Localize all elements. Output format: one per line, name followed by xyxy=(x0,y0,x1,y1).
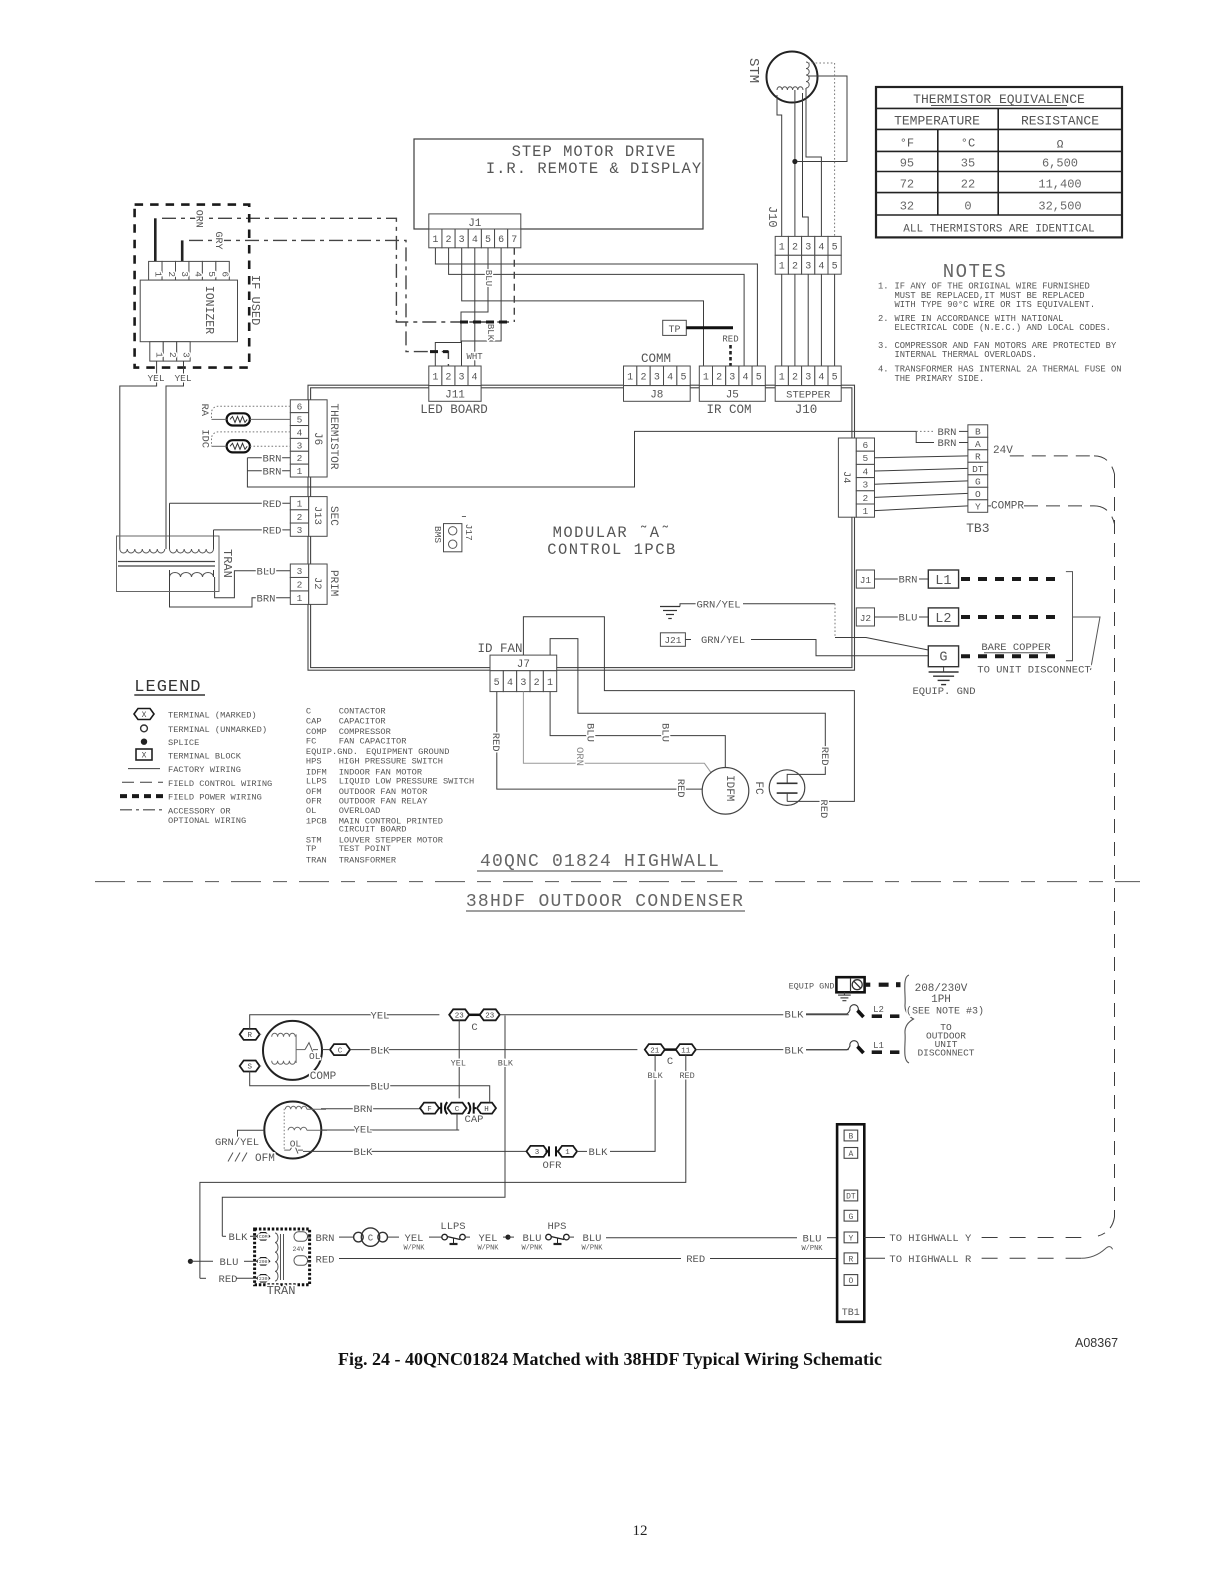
wire BLU W/PNK splice to HPS xyxy=(508,1233,546,1253)
svg-text:6: 6 xyxy=(863,440,869,451)
svg-text:4: 4 xyxy=(863,466,869,477)
svg-text:YEL: YEL xyxy=(479,1233,498,1245)
svg-text:ACCESSORY OR: ACCESSORY OR xyxy=(168,806,231,816)
svg-text:BRN: BRN xyxy=(263,466,282,478)
legend field power wiring xyxy=(120,793,262,803)
svg-text:TRAN: TRAN xyxy=(267,1284,296,1298)
svg-text:A08367: A08367 xyxy=(1075,1336,1118,1350)
liquid low pressure switch LLPS xyxy=(440,1221,465,1244)
svg-text:6: 6 xyxy=(220,271,231,277)
svg-text:L1: L1 xyxy=(873,1041,884,1051)
svg-text:HPS: HPS xyxy=(306,757,322,767)
svg-text:X: X xyxy=(142,711,147,720)
svg-text:6,500: 6,500 xyxy=(1042,157,1078,171)
svg-text:1: 1 xyxy=(863,506,869,517)
svg-text:BLU: BLU xyxy=(371,1082,390,1094)
svg-text:FAN CAPACITOR: FAN CAPACITOR xyxy=(339,737,407,747)
svg-text:IF USED: IF USED xyxy=(248,275,262,325)
ground symbol GRN/YEL on 1PCB xyxy=(660,600,928,651)
svg-text:LIQUID LOW PRESSURE SWITCH: LIQUID LOW PRESSURE SWITCH xyxy=(339,776,475,786)
svg-text:38HDF OUTDOOR CONDENSER: 38HDF OUTDOOR CONDENSER xyxy=(466,892,744,912)
svg-text:LED BOARD: LED BOARD xyxy=(420,403,488,417)
svg-text:EQUIP GND: EQUIP GND xyxy=(789,982,835,992)
wire BRN to TB3 A xyxy=(916,431,968,450)
high pressure switch HPS xyxy=(546,1221,570,1244)
svg-text:ALL THERMISTORS ARE IDENTICAL: ALL THERMISTORS ARE IDENTICAL xyxy=(903,224,1094,236)
svg-text:R: R xyxy=(975,451,981,462)
svg-text:C: C xyxy=(338,1047,343,1055)
svg-text:5: 5 xyxy=(756,372,762,383)
svg-text:72: 72 xyxy=(900,178,914,192)
svg-text:OPTIONAL WIRING: OPTIONAL WIRING xyxy=(168,816,246,826)
contactor C contacts 21-11 xyxy=(645,1044,696,1068)
svg-text:230: 230 xyxy=(259,1276,268,1282)
svg-text:RED: RED xyxy=(674,779,686,798)
connector J1 on step motor drive xyxy=(429,214,521,248)
thermistor RA sensor xyxy=(198,404,290,426)
svg-text:IR COM: IR COM xyxy=(706,403,751,417)
svg-text:4: 4 xyxy=(472,372,478,383)
svg-text:C: C xyxy=(667,1056,673,1068)
svg-text:RED: RED xyxy=(818,747,830,766)
svg-text:CAPACITOR: CAPACITOR xyxy=(339,717,386,727)
svg-text:BLK: BLK xyxy=(354,1147,374,1159)
svg-text:Y: Y xyxy=(975,501,981,512)
svg-text:J8: J8 xyxy=(650,390,663,402)
svg-text:BRN: BRN xyxy=(938,438,957,450)
wire YEL W/PNK coil to LLPS xyxy=(388,1233,443,1253)
connector J5 IR COM xyxy=(699,366,765,417)
transformer TRAN indoor xyxy=(117,503,235,591)
svg-text:F: F xyxy=(427,1106,432,1114)
svg-text:Ω: Ω xyxy=(1057,140,1064,152)
connector J4 xyxy=(838,438,874,517)
wire RED J13 pin1 to transformer xyxy=(170,499,291,511)
svg-text:RED: RED xyxy=(263,499,282,511)
legend factory wiring xyxy=(128,765,241,775)
svg-text:1: 1 xyxy=(432,372,438,383)
connector J10 STEPPER header xyxy=(775,366,841,417)
svg-text:5: 5 xyxy=(832,261,838,272)
wire YEL W/PNK LLPS to splice xyxy=(465,1233,510,1253)
svg-text:EQUIP.GND.: EQUIP.GND. xyxy=(306,747,358,757)
svg-text:1: 1 xyxy=(779,242,785,253)
ground GRN/YEL for OFM xyxy=(215,1130,264,1161)
svg-text:OL: OL xyxy=(306,806,316,816)
svg-text:2: 2 xyxy=(863,493,869,504)
disconnect switch blade L2 row xyxy=(785,1005,900,1022)
svg-text:OFR: OFR xyxy=(543,1160,563,1172)
wire BRN TRAN 24V to contactor coil xyxy=(307,1233,354,1245)
legend field control wiring xyxy=(122,779,272,789)
svg-text:TERMINAL BLOCK: TERMINAL BLOCK xyxy=(168,751,242,761)
svg-text:ID FAN: ID FAN xyxy=(477,642,522,656)
svg-text:5: 5 xyxy=(485,235,491,246)
svg-text:BLK: BLK xyxy=(785,1046,805,1058)
accessory dotted wire STM to J10 plug pin5 xyxy=(808,63,835,236)
terminal R on compressor xyxy=(240,1029,260,1040)
svg-text:TEMPERATURE: TEMPERATURE xyxy=(894,114,980,129)
svg-text:BRN: BRN xyxy=(938,427,957,439)
terminal block TB3 xyxy=(966,425,989,536)
equipment ground entry EQUIP GND xyxy=(789,977,901,1001)
svg-text:FC: FC xyxy=(752,781,764,795)
svg-text:3: 3 xyxy=(297,440,303,451)
svg-text:2: 2 xyxy=(716,372,722,383)
svg-text:1: 1 xyxy=(779,261,785,272)
svg-text:RED: RED xyxy=(722,335,738,345)
svg-text:BLK: BLK xyxy=(785,1010,805,1022)
legend abbreviations xyxy=(306,707,474,866)
svg-text:21: 21 xyxy=(650,1047,660,1055)
accessory wire GRY ionizer pin3 to J11 pin2 xyxy=(182,232,448,367)
svg-text:SEC: SEC xyxy=(327,506,339,526)
svg-text:YEL: YEL xyxy=(371,1011,390,1023)
svg-text:11,400: 11,400 xyxy=(1038,178,1081,192)
field power bare copper from G xyxy=(961,642,1058,656)
bracket to unit disconnect xyxy=(977,572,1100,677)
svg-text:A: A xyxy=(975,439,981,450)
svg-text:J2: J2 xyxy=(311,577,323,590)
field power wiring from L1 xyxy=(961,577,1058,581)
contactor C contacts 23-23 xyxy=(449,1009,500,1034)
svg-text:THERMISTOR: THERMISTOR xyxy=(327,404,339,470)
wire BRN J6 pin2 xyxy=(247,454,290,466)
svg-text:TO HIGHWALL Y: TO HIGHWALL Y xyxy=(889,1233,972,1245)
svg-text:TRAN: TRAN xyxy=(220,549,234,578)
wire J1 pin1 to J5 pin5 xyxy=(435,248,757,366)
transformer TRAN outdoor xyxy=(255,1229,310,1298)
svg-text:J1: J1 xyxy=(468,218,482,230)
svg-text:BLK: BLK xyxy=(485,324,495,341)
svg-text:2: 2 xyxy=(297,580,303,591)
section title 38HDF OUTDOOR CONDENSER xyxy=(466,892,745,912)
wire RED J13 pin3 to transformer xyxy=(214,526,291,538)
svg-text:EQUIPMENT GROUND: EQUIPMENT GROUND xyxy=(366,747,449,757)
splice junction on STM wire xyxy=(792,159,797,164)
svg-text:TRAN: TRAN xyxy=(306,855,327,865)
svg-text:J21: J21 xyxy=(664,635,681,646)
outdoor fan relay OFR contacts 3-1 xyxy=(527,1055,664,1172)
svg-text:BLU: BLU xyxy=(584,723,596,742)
svg-text:4.: 4. xyxy=(878,365,889,375)
svg-text:CIRCUIT BOARD: CIRCUIT BOARD xyxy=(339,824,407,834)
svg-text:BLU: BLU xyxy=(257,566,276,578)
svg-text:S: S xyxy=(247,1064,252,1072)
svg-text:35: 35 xyxy=(961,157,975,171)
svg-text:RED: RED xyxy=(263,526,282,538)
wire RED 11 to transformer feed xyxy=(200,1055,695,1278)
wire ORN J7 pin3 to IDFM xyxy=(523,692,711,774)
svg-text:L1: L1 xyxy=(935,574,951,589)
wire BLK branch to transformer feed xyxy=(222,1016,514,1237)
svg-text:12: 12 xyxy=(633,1523,648,1539)
svg-text:FACTORY WIRING: FACTORY WIRING xyxy=(168,765,241,775)
svg-text:W/PNK: W/PNK xyxy=(801,1245,823,1253)
outdoor fan motor OFM xyxy=(255,1102,327,1166)
wire STM to J10 plug pin3 xyxy=(803,93,809,236)
svg-text:THERMISTOR EQUIVALENCE: THERMISTOR EQUIVALENCE xyxy=(913,92,1085,107)
svg-text:ORN: ORN xyxy=(193,210,204,228)
svg-text:INTERNAL THERMAL OVERLOADS.: INTERNAL THERMAL OVERLOADS. xyxy=(895,350,1038,360)
svg-text:J10: J10 xyxy=(795,403,818,417)
svg-text:TRANSFORMER: TRANSFORMER xyxy=(339,855,396,865)
ionizer module xyxy=(140,261,262,361)
svg-text:DT: DT xyxy=(972,464,984,475)
svg-text:2: 2 xyxy=(534,678,540,689)
svg-text:4: 4 xyxy=(472,235,478,246)
svg-text:STEP MOTOR DRIVE: STEP MOTOR DRIVE xyxy=(512,143,677,161)
svg-text:4: 4 xyxy=(193,271,204,277)
wire BLU W/PNK HPS to TB1 Y xyxy=(569,1233,837,1253)
svg-text:O: O xyxy=(975,489,981,500)
svg-text:3: 3 xyxy=(863,480,869,491)
svg-text:32: 32 xyxy=(900,200,914,214)
svg-text:OFR: OFR xyxy=(306,796,322,806)
svg-text:1: 1 xyxy=(297,466,303,477)
svg-text:L2: L2 xyxy=(873,1005,884,1015)
svg-text:COM: COM xyxy=(259,1234,268,1240)
svg-text:HIGH PRESSURE SWITCH: HIGH PRESSURE SWITCH xyxy=(339,757,443,767)
svg-text:5: 5 xyxy=(681,372,687,383)
connector J21 GRN/YEL to G xyxy=(660,633,928,656)
svg-text:GRY: GRY xyxy=(212,232,223,250)
svg-text:22: 22 xyxy=(961,178,975,192)
wire BLK J1 pin6 to J11 pin3 xyxy=(462,248,502,366)
field control dashed trunk right side xyxy=(1114,474,1116,1217)
svg-text:6: 6 xyxy=(297,402,303,413)
svg-text:RED: RED xyxy=(316,1254,335,1266)
disconnect switch blade L1 row xyxy=(785,1041,900,1058)
connector J11 LED BOARD xyxy=(420,366,488,417)
svg-text:1: 1 xyxy=(432,235,438,246)
svg-text:RA: RA xyxy=(198,404,210,417)
svg-text:WHT: WHT xyxy=(466,352,483,362)
svg-text:2: 2 xyxy=(792,242,798,253)
svg-text:4: 4 xyxy=(667,372,673,383)
svg-text:3: 3 xyxy=(805,372,811,383)
wire YEL compressor R to contactor 23 xyxy=(250,1011,440,1029)
svg-text:SPLICE: SPLICE xyxy=(168,738,199,748)
svg-text:2: 2 xyxy=(297,512,303,523)
wire WHT J1 pin4 to J11 pin4 xyxy=(466,248,483,366)
svg-text:TO UNIT DISCONNECT: TO UNIT DISCONNECT xyxy=(977,665,1090,677)
jumper J17 BMS xyxy=(432,517,474,552)
svg-text:NOTES: NOTES xyxy=(943,261,1008,283)
svg-text:TERMINAL (UNMARKED): TERMINAL (UNMARKED) xyxy=(168,725,267,735)
svg-text:4: 4 xyxy=(818,242,824,253)
svg-text:32,500: 32,500 xyxy=(1038,200,1081,214)
wire BLU into TRAN with splice xyxy=(188,1257,257,1269)
legend terminal marked symbol xyxy=(134,709,257,721)
svg-text:TEST POINT: TEST POINT xyxy=(339,844,391,854)
svg-text:OFM: OFM xyxy=(255,1153,275,1165)
svg-text:IDC: IDC xyxy=(199,429,211,448)
svg-text:BLK: BLK xyxy=(647,1071,663,1081)
svg-text:FIELD POWER WIRING: FIELD POWER WIRING xyxy=(168,793,262,803)
svg-text:G: G xyxy=(975,476,981,487)
wire RED J7 pin5 to IDFM xyxy=(489,692,702,798)
svg-text:1PH: 1PH xyxy=(931,994,951,1006)
wire STM right winding to J10 plug pin4 xyxy=(806,88,821,236)
legend terminal unmarked symbol xyxy=(141,725,267,735)
svg-text:3: 3 xyxy=(805,261,811,272)
svg-text:Y: Y xyxy=(848,1235,853,1244)
svg-text:TP: TP xyxy=(306,844,316,854)
svg-text:3: 3 xyxy=(729,372,735,383)
svg-text:CAP: CAP xyxy=(306,717,322,727)
wire BLK 11 to outdoor disconnect L1 row xyxy=(696,1045,849,1057)
svg-text:BRN: BRN xyxy=(899,575,918,587)
connector J2 line output xyxy=(856,608,928,626)
svg-text:G: G xyxy=(848,1213,853,1222)
svg-text:BLU: BLU xyxy=(583,1233,602,1245)
svg-text:PRIM: PRIM xyxy=(327,570,339,596)
svg-text:OL: OL xyxy=(290,1138,302,1149)
main control printed circuit board 1PCB outline xyxy=(308,385,855,670)
svg-text:J10: J10 xyxy=(765,206,779,228)
wire RED TRAN to TB1 R xyxy=(307,1254,837,1266)
svg-text:5: 5 xyxy=(832,372,838,383)
svg-text:J11: J11 xyxy=(445,390,465,402)
svg-text:R: R xyxy=(848,1256,853,1265)
label MODULAR A CONTROL 1PCB xyxy=(547,524,677,559)
svg-text:3: 3 xyxy=(180,352,191,358)
svg-text:3: 3 xyxy=(459,235,465,246)
svg-text:YEL: YEL xyxy=(147,373,164,384)
svg-text:ELECTRICAL CODE (N.E.C.) AND L: ELECTRICAL CODE (N.E.C.) AND LOCAL CODES… xyxy=(895,323,1111,333)
wire BLK contactor to outdoor disconnect L2 row xyxy=(500,1011,849,1023)
svg-text:GRN/YEL: GRN/YEL xyxy=(696,600,740,612)
svg-text:C: C xyxy=(455,1106,460,1114)
svg-text:DISCONNECT: DISCONNECT xyxy=(917,1048,974,1059)
svg-text:I.R. REMOTE & DISPLAY: I.R. REMOTE & DISPLAY xyxy=(486,160,702,178)
svg-text:C: C xyxy=(471,1022,477,1034)
svg-text:1: 1 xyxy=(779,372,785,383)
field wire 24V from TB3 R xyxy=(993,445,1115,474)
svg-text:5: 5 xyxy=(297,415,303,426)
connector J8 COMM xyxy=(624,352,691,402)
svg-text:1: 1 xyxy=(152,271,163,277)
svg-text:5: 5 xyxy=(832,242,838,253)
svg-text:W/PNK: W/PNK xyxy=(581,1245,603,1253)
svg-text:BRN: BRN xyxy=(354,1104,373,1116)
svg-text:RED: RED xyxy=(686,1254,705,1266)
svg-text:W/PNK: W/PNK xyxy=(403,1245,425,1253)
svg-text:3: 3 xyxy=(458,372,464,383)
wire J1 pin3 to J5 pin1 xyxy=(462,248,704,366)
svg-text:COMP: COMP xyxy=(310,1071,337,1083)
wire STM to J10 plug pin1 xyxy=(777,95,782,236)
wire RED into TRAN xyxy=(200,1274,257,1286)
svg-text:WITH TYPE 90°C WIRE OR ITS EQU: WITH TYPE 90°C WIRE OR ITS EQUIVALENT. xyxy=(895,300,1096,310)
svg-text:3: 3 xyxy=(297,566,303,577)
wire BRN J6 pin1 xyxy=(247,466,290,478)
svg-text:J5: J5 xyxy=(726,390,739,402)
svg-text:2: 2 xyxy=(446,235,452,246)
svg-text:BRN: BRN xyxy=(263,454,282,466)
svg-text:1: 1 xyxy=(627,372,633,383)
field wire TO HIGHWALL R with crossover hook xyxy=(864,1247,1112,1266)
wire BLK compressor C to contactor 21 xyxy=(350,1045,637,1057)
svg-text:3: 3 xyxy=(535,1149,540,1157)
svg-text:TB3: TB3 xyxy=(966,521,989,536)
svg-text:J6: J6 xyxy=(311,432,323,445)
svg-text:4: 4 xyxy=(818,261,824,272)
svg-text:B: B xyxy=(975,426,981,437)
wires J4 pins to TB3 xyxy=(875,456,968,511)
svg-text:W/PNK: W/PNK xyxy=(521,1245,543,1253)
svg-text:J1: J1 xyxy=(860,575,872,586)
svg-text:3.: 3. xyxy=(878,341,889,351)
svg-text:YEL: YEL xyxy=(174,373,191,384)
svg-text:1: 1 xyxy=(703,372,709,383)
svg-text:BMS: BMS xyxy=(432,526,443,543)
run capacitor CAP terminals F C H xyxy=(420,1098,496,1130)
svg-text:COMPR: COMPR xyxy=(991,501,1024,513)
svg-text:YEL: YEL xyxy=(405,1233,424,1245)
svg-text:24V: 24V xyxy=(993,445,1013,457)
wire YEL 23 to run capacitor C terminal xyxy=(451,1020,466,1098)
connector J1 line output xyxy=(856,570,928,588)
svg-text:HPS: HPS xyxy=(548,1221,567,1233)
svg-text:J4: J4 xyxy=(840,471,852,484)
svg-text:COMP: COMP xyxy=(306,727,327,737)
field power wiring from L2 xyxy=(961,615,1058,619)
accessory wire ORN ionizer pin1 to J1 pin7 xyxy=(155,210,514,322)
wire J1 pin2 to J5 pin4 xyxy=(449,248,744,366)
svg-text:CONTACTOR: CONTACTOR xyxy=(339,707,386,717)
svg-text:BLU: BLU xyxy=(523,1233,542,1245)
svg-text:FIELD CONTROL WIRING: FIELD CONTROL WIRING xyxy=(168,779,272,789)
svg-text:IONIZER: IONIZER xyxy=(202,286,215,334)
svg-text:5: 5 xyxy=(494,678,500,689)
svg-text:BLU: BLU xyxy=(899,613,918,625)
svg-text:A: A xyxy=(848,1150,853,1159)
svg-text:23: 23 xyxy=(485,1013,495,1021)
svg-text:ORN: ORN xyxy=(573,747,585,766)
svg-text:LEGEND: LEGEND xyxy=(134,678,201,697)
svg-text:BLU: BLU xyxy=(220,1257,239,1269)
svg-text:OVERLOAD: OVERLOAD xyxy=(339,806,381,816)
svg-text:W/PNK: W/PNK xyxy=(477,1245,499,1253)
svg-text:R: R xyxy=(247,1032,252,1040)
svg-text:J13: J13 xyxy=(311,506,323,525)
svg-text:1: 1 xyxy=(297,499,303,510)
svg-text:2: 2 xyxy=(297,453,303,464)
svg-text:°F: °F xyxy=(900,137,914,151)
svg-text:11: 11 xyxy=(681,1047,691,1055)
wire YEL ionizer pin1 to transformer xyxy=(120,361,165,549)
compressor COMP xyxy=(263,1021,337,1083)
field wire COMPR from TB3 Y xyxy=(988,501,1115,525)
svg-text:STM: STM xyxy=(745,58,761,83)
svg-text:1: 1 xyxy=(297,593,303,604)
wire loop J7 pin3 to fan capacitor FC bottom xyxy=(523,617,854,819)
svg-text:X: X xyxy=(142,752,147,761)
svg-text:RED: RED xyxy=(679,1071,694,1081)
fan capacitor FC xyxy=(752,770,805,806)
svg-text:BLK: BLK xyxy=(498,1059,514,1069)
svg-text:J2: J2 xyxy=(860,613,872,624)
svg-text:1: 1 xyxy=(547,678,553,689)
terminal block TB1 xyxy=(837,1124,864,1322)
contactor coil C xyxy=(354,1228,388,1246)
thermistor equivalence table xyxy=(876,87,1122,237)
svg-text:2: 2 xyxy=(167,352,178,358)
svg-text:5: 5 xyxy=(206,271,217,277)
svg-text:TO HIGHWALL R: TO HIGHWALL R xyxy=(889,1254,972,1266)
